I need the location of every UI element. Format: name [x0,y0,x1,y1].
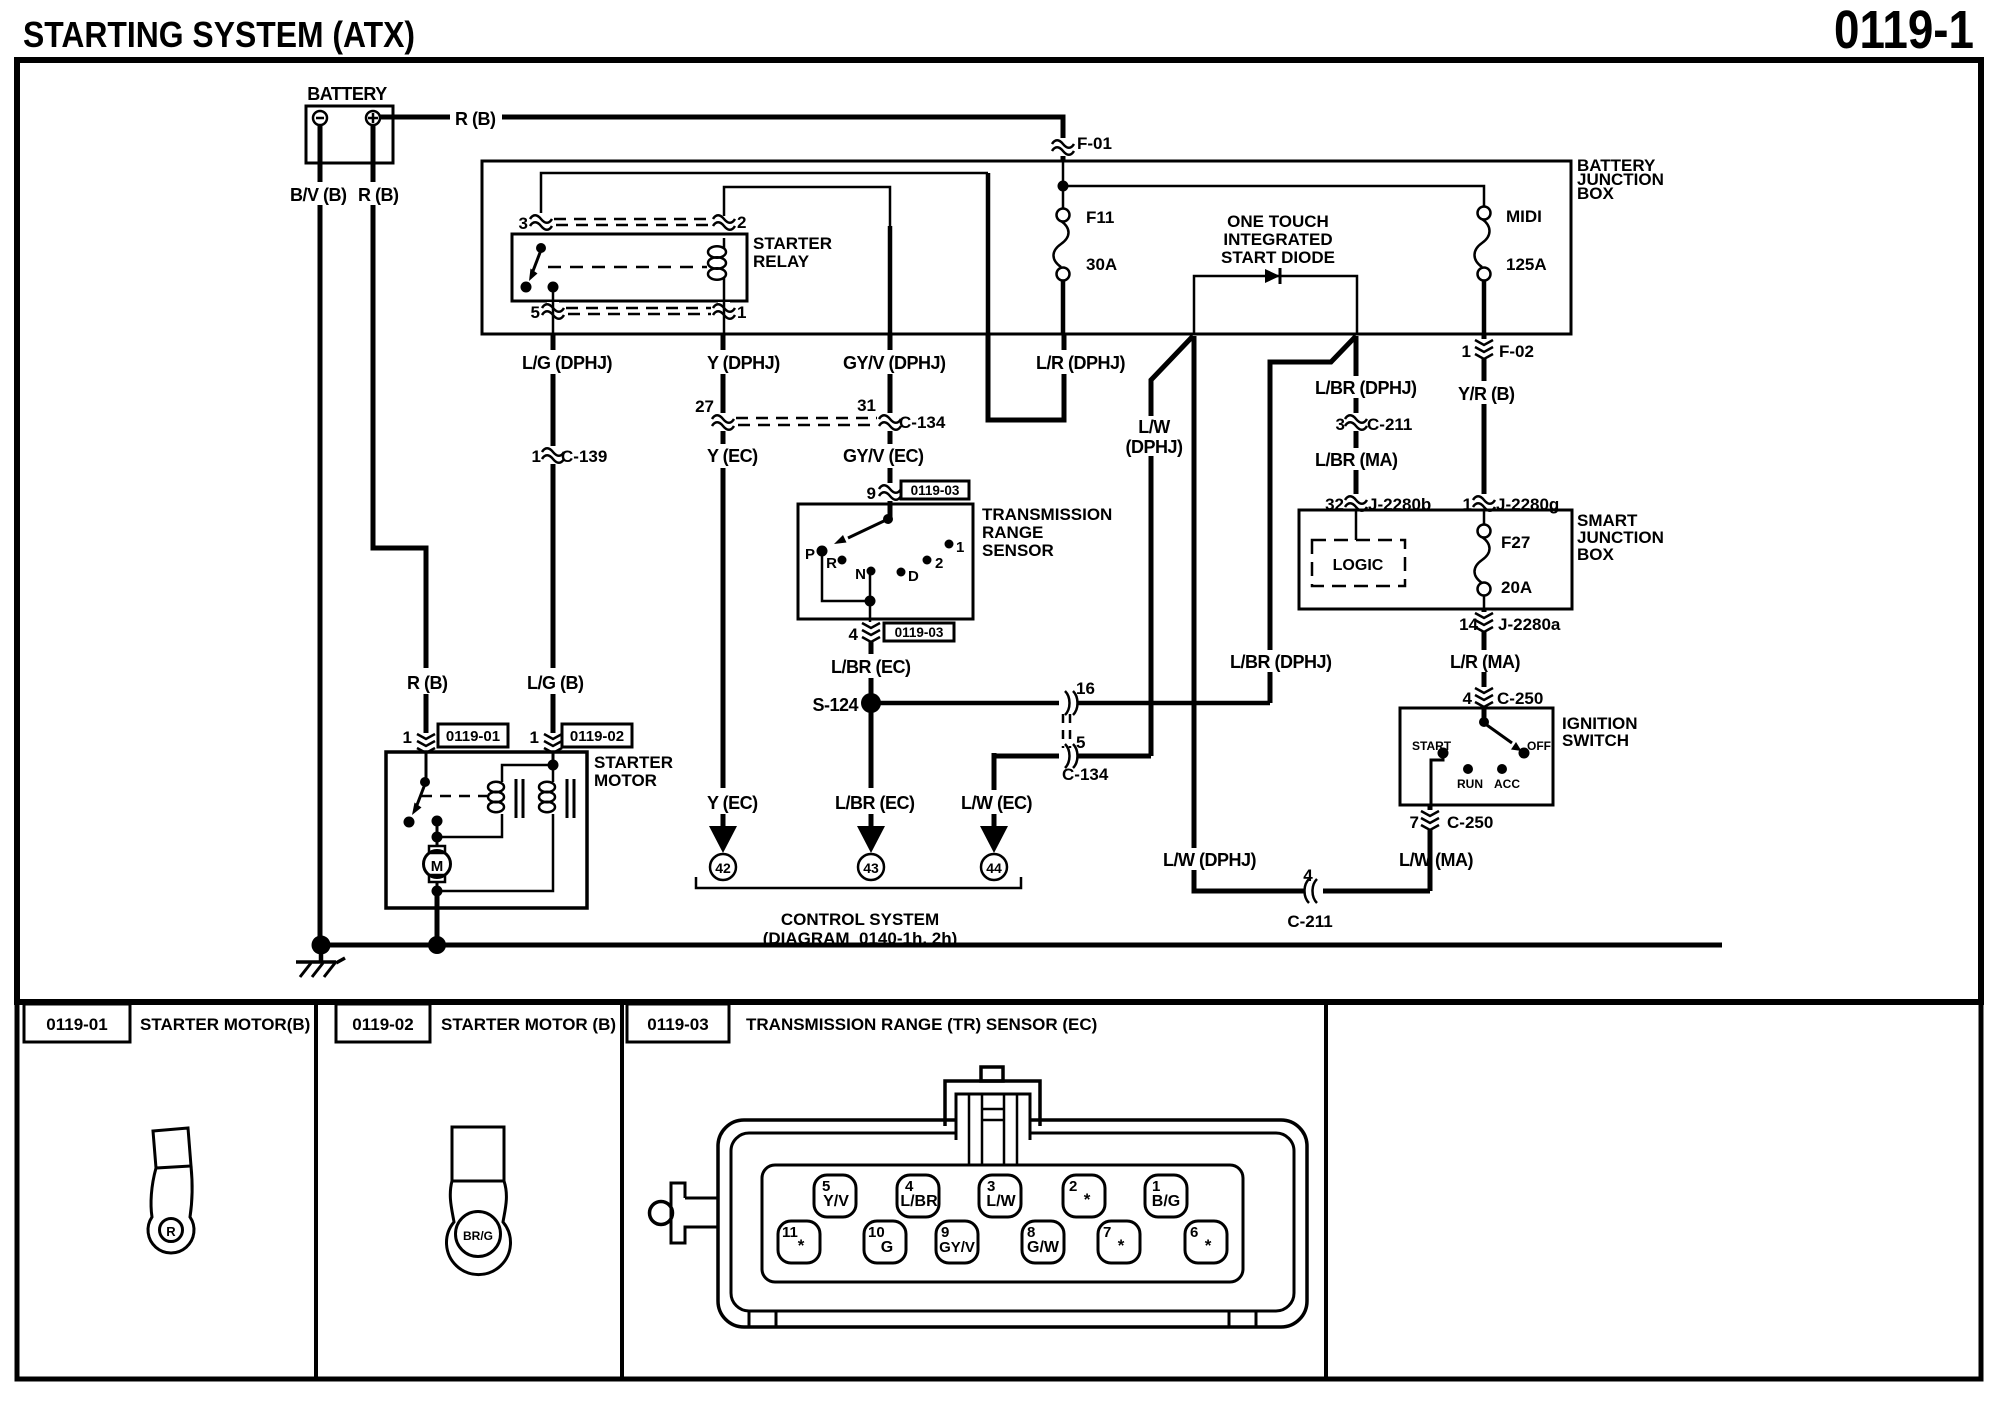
wire L/R inside BJB down [986,173,991,334]
svg-text:C-139: C-139 [561,447,607,466]
svg-text:RUN: RUN [1457,777,1483,791]
TR sensor N link wire [869,575,872,601]
svg-text:5: 5 [531,303,540,322]
svg-text:OFF: OFF [1527,739,1551,753]
svg-text:BATTERY: BATTERY [307,84,387,104]
TR sensor contact D [897,568,920,586]
starter motor coil 2 [539,782,555,812]
label L/R (MA) [1447,650,1531,672]
wire R (B) battery plus down [373,125,426,752]
svg-text:43: 43 [863,860,879,876]
svg-text:B/G: B/G [1152,1193,1180,1210]
TR sensor contact 2 [923,555,944,572]
svg-text:0119-02: 0119-02 [352,1015,413,1034]
wire relay pin5 to BJB bottom [552,292,555,334]
starter motor solenoid feed from L/G [552,752,555,762]
svg-text:1: 1 [956,539,964,556]
TR sensor output to box edge [869,601,872,625]
svg-text:42: 42 [715,860,731,876]
pin 11 * [778,1221,820,1263]
connector latch circle [650,1202,673,1225]
wire Y/R into fuse F27 [1483,510,1486,525]
svg-text:L/W (DPHJ): L/W (DPHJ) [1163,850,1256,870]
svg-text:125A: 125A [1506,255,1547,274]
connector top tab knob [981,1067,1003,1081]
connector dashed link 16-5 [1063,714,1070,748]
svg-text:SENSOR: SENSOR [982,541,1054,560]
connector crossing 1 J-2280g [1463,494,1560,514]
header box 0119-01 [24,1004,130,1042]
wire starter motor to ground [435,891,440,945]
starter motor box [386,752,587,908]
svg-text:GY/V: GY/V [939,1239,975,1256]
wire B/V (B) battery minus to ground [318,125,323,945]
svg-text:L/W: L/W [986,1193,1016,1210]
svg-text:BOX: BOX [1577,184,1615,203]
connector crossing 1 C-139 [532,446,608,466]
relay switch common node [536,243,546,253]
svg-text:5: 5 [1076,733,1085,752]
relay pin 1 crossing [713,302,746,322]
relay pin 3 crossing [519,213,552,233]
svg-text:0119-01: 0119-01 [446,728,500,745]
svg-text:0119-03: 0119-03 [647,1015,708,1034]
svg-text:STARTER MOTOR(B): STARTER MOTOR(B) [140,1015,310,1034]
svg-text:MOTOR: MOTOR [594,771,657,790]
TR sensor contact P [805,546,828,564]
wire GY/V (DPHJ) down to TR sensor [888,334,893,517]
label STARTER MOTOR [594,753,673,790]
svg-text:LOGIC: LOGIC [1333,557,1384,574]
svg-text:4: 4 [1463,689,1473,708]
svg-text:R (B): R (B) [407,673,448,693]
svg-text:2: 2 [935,555,943,572]
connector crossing 1 F-02 [1462,339,1534,361]
svg-text:L/W (EC): L/W (EC) [961,793,1032,813]
pin 6 * [1185,1221,1227,1263]
svg-text:(DPHJ): (DPHJ) [1125,437,1183,457]
ground bus wire [321,943,1722,948]
svg-text:L/BR (EC): L/BR (EC) [835,793,915,813]
svg-text:Y (DPHJ): Y (DPHJ) [707,353,780,373]
svg-text:Y/R (B): Y/R (B) [1458,384,1515,404]
TR sensor contact R [826,555,846,572]
label L/G (B) [524,668,584,694]
connector right foot [1229,1311,1256,1327]
wire relay pin2 coil to GY/V drop [724,187,890,334]
svg-text:Y (EC): Y (EC) [707,793,758,813]
connector inner shell [731,1133,1294,1311]
header box 0119-02 [336,1004,430,1042]
svg-text:9: 9 [867,484,876,503]
ground junction node B/V [312,936,331,955]
fuse MIDI 125A [1475,207,1491,281]
wire L/G (DPHJ) relay pin5 down to starter motor [551,334,556,752]
starter motor coil 2 core bars [567,779,574,818]
header box 0119-03 [627,1004,729,1042]
svg-text:*: * [1118,1236,1125,1255]
TR sensor contact 1 [945,539,965,556]
TR sensor P to output wire [822,555,870,601]
starter motor actuation dashed line [421,795,487,798]
svg-text:31: 31 [857,396,876,415]
starter motor coil1 return wire [437,814,502,837]
svg-text:SWITCH: SWITCH [1562,731,1629,750]
svg-text:(DIAGRAM 0140-1h, 2h): (DIAGRAM 0140-1h, 2h) [763,929,958,948]
label B/V (B) [288,182,348,205]
svg-text:C-134: C-134 [1062,765,1109,784]
svg-text:GY/V (EC): GY/V (EC) [843,446,924,466]
svg-text:3: 3 [1336,415,1345,434]
fuse F11 30A [1054,209,1070,281]
label STARTER RELAY [753,234,832,271]
svg-text:BR/G: BR/G [463,1229,493,1243]
label Y (EC) lower [704,788,764,814]
connector crossing 1 0119-01 [403,724,508,753]
pin 9 GY/V [936,1221,978,1263]
connector crossing 16 C-134 [1059,679,1095,715]
motor bottom junction node [432,886,443,897]
svg-text:16: 16 [1076,679,1095,698]
svg-text:1: 1 [737,303,746,322]
TR sensor connector drawing [650,1067,1308,1327]
connector crossing 5 C-134 [1059,733,1109,784]
TR sensor contact N [855,566,875,583]
relay actuation dashed line [548,266,707,269]
label CONTROL SYSTEM [763,910,958,948]
svg-text:L/W (MA): L/W (MA) [1399,850,1473,870]
terminal circle 42 [710,854,736,880]
label GY/V (DPHJ) [841,350,949,374]
svg-text:20A: 20A [1501,578,1532,597]
label L/W (EC) [958,790,1034,814]
svg-text:N: N [855,566,866,583]
wire Y (DPHJ) relay pin1 down to terminal 42 [721,334,726,826]
ground symbol [296,945,345,977]
svg-text:TRANSMISSION: TRANSMISSION [982,505,1112,524]
connector crossing 32 J-2280b [1325,494,1431,514]
starter motor coil2 return wire [437,814,553,891]
TR sensor input node [883,514,893,524]
fuse F27 20A [1475,525,1491,596]
wire L/W (DPHJ) branch to terminal 44 [1151,336,1193,756]
wire junction to MIDI [1063,186,1484,207]
ignition switch pivot node [1479,717,1489,727]
connector pin field [762,1165,1243,1282]
terminal circle 43 [858,854,884,880]
svg-text:BOX: BOX [1577,545,1615,564]
battery box [306,106,393,163]
svg-text:Y/V: Y/V [823,1193,849,1210]
battery junction box [482,161,1571,334]
node F-01 junction dot [1058,181,1069,192]
starter motor coil 1 feed [502,765,553,782]
label Y (DPHJ) [704,350,782,374]
bottom section divider 2 [620,1002,624,1379]
label BATTERY JUNCTION BOX [1577,156,1664,203]
svg-text:J-2280a: J-2280a [1498,615,1561,634]
connector top tab inner [956,1094,1030,1165]
ground junction node starter motor [428,936,446,954]
label L/BR (DPHJ) [1313,376,1417,398]
connector crossing 14 J-2280a [1459,612,1561,634]
TR sensor output node [865,596,876,607]
bottom section frame [17,1002,1981,1379]
svg-text:B/V (B): B/V (B) [290,185,347,205]
starter relay box [512,234,747,301]
svg-text:0119-1: 0119-1 [1834,0,1974,60]
svg-text:6: 6 [1190,1224,1198,1241]
label L/BR (MA) [1313,448,1399,470]
connector crossing 4 C-211 [1287,866,1332,931]
svg-text:R: R [166,1224,176,1239]
label ONE TOUCH INTEGRATED START DIODE [1221,212,1335,267]
starter motor switch feed wire [425,752,428,780]
wire MIDI to BJB bottom [1482,280,1487,334]
terminal arrow 44 [980,826,1008,853]
svg-text:L/R (DPHJ): L/R (DPHJ) [1036,353,1126,373]
battery plus terminal [366,111,380,125]
wire L/R (MA) SJB to ignition switch [1482,609,1487,722]
main diagram frame [17,60,1981,1002]
svg-text:Y (EC): Y (EC) [707,446,758,466]
ignition switch RUN contact [1457,764,1483,791]
wire L/R U-turn below BJB [988,334,1064,420]
label L/BR (EC) lower [832,788,916,814]
svg-text:L/BR (EC): L/BR (EC) [831,657,911,677]
svg-text:G: G [881,1239,893,1256]
wire L/BR (DPHJ) branch to S-124 bus [1270,336,1356,703]
svg-text:ACC: ACC [1494,777,1520,791]
svg-text:2: 2 [737,213,746,232]
connector crossing 7 C-250 [1410,810,1494,832]
pin 3 L/W [979,1175,1021,1217]
wire relay pin1 to BJB bottom [723,296,726,334]
starter motor coil 1 [488,782,504,812]
relay connector dashed link pins 3-2 [554,219,711,225]
wire F27 to SJB bottom [1483,595,1486,609]
ignition switch ACC contact [1494,764,1520,791]
svg-text:L/BR: L/BR [900,1193,938,1210]
connector crossing 3 C-211 [1336,413,1413,434]
label L/R (DPHJ) [1034,350,1126,374]
svg-text:D: D [908,568,919,585]
label GY/V (EC) [841,444,925,468]
starter motor coil return node [432,832,443,843]
connector crossing 27 C-134 [695,397,734,431]
connector crossing 1 0119-02 [530,724,632,753]
svg-text:L/W: L/W [1138,417,1170,437]
connector crossing 31 C-134 [857,396,946,432]
pin 7 * [1098,1221,1140,1263]
label L/W (DPHJ) two lines [1125,416,1183,457]
svg-text:14: 14 [1459,615,1478,634]
svg-text:4: 4 [1303,866,1313,885]
svg-text:0119-02: 0119-02 [570,728,624,745]
svg-text:P: P [805,546,815,563]
svg-text:START: START [1412,739,1452,753]
svg-text:44: 44 [986,860,1002,876]
wire Y/R (B) from MIDI to SJB [1482,334,1487,510]
svg-text:L/BR (DPHJ): L/BR (DPHJ) [1230,652,1332,672]
svg-text:STARTER: STARTER [753,234,832,253]
control system bracket [696,877,1021,888]
ignition switch arm to OFF [1484,723,1522,751]
relay connector dashed link pins 5-1 [566,308,711,314]
relay pin 5 crossing [531,302,564,322]
starter motor switch output contact [432,816,443,827]
svg-text:INTEGRATED: INTEGRATED [1223,230,1332,249]
svg-text:*: * [1084,1190,1091,1209]
svg-text:RANGE: RANGE [982,523,1043,542]
svg-text:F11: F11 [1086,208,1114,227]
svg-text:3: 3 [519,214,528,233]
svg-text:*: * [1205,1236,1212,1255]
wire L/BR (DPHJ) main down to SJB [1354,336,1359,510]
relay coil [708,238,726,296]
svg-text:7: 7 [1103,1224,1111,1241]
label R (B) vertical [355,182,401,205]
terminal circle 44 [981,854,1007,880]
svg-text:L/G (DPHJ): L/G (DPHJ) [522,353,613,373]
connector tab slots [969,1094,1017,1164]
svg-text:C-211: C-211 [1287,912,1332,931]
svg-text:0119-03: 0119-03 [911,483,960,498]
starter motor solenoid junction node [548,760,559,771]
transmission range sensor box [798,504,973,619]
label L/BR (EC) [828,654,912,678]
terminal arrow 42 [709,826,737,853]
bottom section divider 1 [314,1002,318,1379]
pin 4 L/BR [897,1175,939,1217]
connector dashed link 27-31 [736,418,877,425]
ring terminal BR/G detail [447,1127,511,1275]
connector top tab outer [945,1081,1040,1126]
wire L/W (DPHJ) main down [1194,336,1430,891]
connector crossing 4 0119-03 [849,622,954,644]
svg-text:L/R (MA): L/R (MA) [1450,652,1520,672]
svg-text:STARTING SYSTEM (ATX): STARTING SYSTEM (ATX) [23,14,415,55]
svg-text:ONE TOUCH: ONE TOUCH [1227,212,1329,231]
terminal arrow 43 [857,826,885,853]
starter motor switch open contact [404,817,415,828]
wire F11 to BJB bottom [1061,280,1066,334]
svg-text:11: 11 [782,1224,798,1241]
svg-text:GY/V (DPHJ): GY/V (DPHJ) [843,353,946,373]
svg-text:C-134: C-134 [899,413,946,432]
svg-text:*: * [798,1236,805,1255]
svg-text:C-211: C-211 [1367,415,1412,434]
svg-text:0119-03: 0119-03 [895,625,944,640]
connector crossing 9 0119-03 [867,481,969,503]
one touch start diode loop [1194,268,1357,334]
relay switch output contact pin5 [548,282,559,293]
starter motor coil 1 core bars [516,779,523,818]
pin 8 G/W [1022,1221,1064,1263]
svg-text:30A: 30A [1086,255,1117,274]
svg-text:TRANSMISSION RANGE (TR) SENSOR: TRANSMISSION RANGE (TR) SENSOR (EC) [746,1015,1097,1034]
svg-text:7: 7 [1410,813,1419,832]
wire relay pin3 top feed [541,173,988,216]
svg-text:1: 1 [403,728,412,747]
label R (B) lower [404,668,452,694]
svg-text:L/BR (DPHJ): L/BR (DPHJ) [1315,378,1417,398]
svg-text:F-01: F-01 [1077,134,1112,153]
svg-text:R (B): R (B) [358,185,399,205]
bottom section divider 3 [1324,1002,1328,1379]
connector latch bracket [671,1183,718,1243]
wire L/W (EC) to terminal 44 [992,753,997,826]
svg-text:CONTROL SYSTEM: CONTROL SYSTEM [781,910,939,929]
svg-text:C-250: C-250 [1447,813,1493,832]
relay switch arm [529,250,541,281]
label R (B) on horizontal wire [450,106,502,129]
wire L/W horizontal to terminal 44 [994,754,1151,759]
svg-text:L/BR (MA): L/BR (MA) [1315,450,1398,470]
svg-text:RELAY: RELAY [753,252,810,271]
svg-text:F27: F27 [1501,533,1530,552]
LOGIC dashed box [1312,540,1405,586]
svg-text:4: 4 [849,625,859,644]
svg-text:M: M [431,858,444,875]
pin 5 Y/V [814,1175,856,1217]
ignition switch START contact [1412,739,1452,759]
pin 2 * [1063,1175,1105,1217]
TR sensor wiper arm [834,520,886,544]
connector crossing F-01 [1052,134,1112,156]
relay pin 2 crossing [713,213,746,232]
wire L/BR into LOGIC [1355,510,1358,540]
splice node S-124 [812,693,881,715]
ignition switch box [1400,708,1553,805]
svg-text:1: 1 [532,447,541,466]
label SMART JUNCTION BOX [1577,511,1664,564]
label Y (EC) [704,444,764,468]
wire START contact down [1431,755,1443,805]
connector outer shell [718,1120,1307,1327]
svg-text:0119-01: 0119-01 [46,1015,107,1034]
pin 1 B/G [1145,1175,1187,1217]
svg-text:STARTER: STARTER [594,753,673,772]
label L/BR (DPHJ) mid [1228,650,1332,672]
label TRANSMISSION RANGE SENSOR [982,505,1112,560]
svg-text:1: 1 [530,728,539,747]
label L/W (DPHJ) lower [1161,848,1259,870]
svg-text:C-250: C-250 [1497,689,1543,708]
svg-text:STARTER MOTOR (B): STARTER MOTOR (B) [441,1015,616,1034]
starter motor switch input node [420,777,430,787]
svg-text:L/G (B): L/G (B) [527,673,584,693]
ring terminal R detail [148,1128,194,1253]
svg-text:R: R [826,555,837,572]
wire switch output to motor [436,821,439,846]
svg-text:R (B): R (B) [455,109,496,129]
relay switch open contact [521,282,532,293]
svg-text:START DIODE: START DIODE [1221,248,1335,267]
wire R (B) battery plus to F-01 [380,117,1063,161]
starter motor switch arm [412,784,425,815]
wire L/W (MA) up to ignition switch [1428,805,1433,891]
svg-text:2: 2 [1069,1178,1077,1195]
motor M [424,846,451,882]
connector left foot [749,1311,776,1327]
svg-text:F-02: F-02 [1499,342,1534,361]
svg-text:S-124: S-124 [812,695,858,715]
wire motor to ground node [436,882,439,891]
label IGNITION SWITCH [1562,714,1638,750]
wire L/BR (EC) to S-124 [869,642,874,826]
wire S-124 splice bus [871,701,1270,706]
